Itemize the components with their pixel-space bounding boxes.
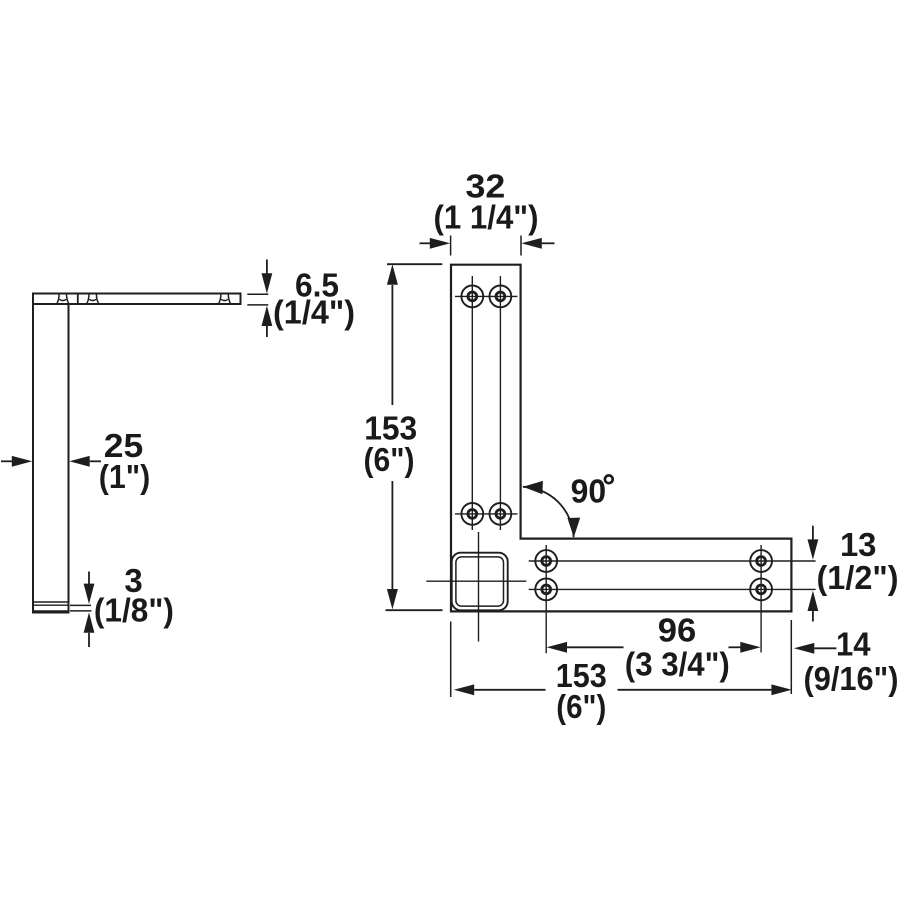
- square insert outer: [452, 553, 508, 611]
- dim 32 extension line right: [520, 236, 522, 256]
- dim 153 bottom extension line left: [450, 622, 452, 698]
- leg foot line A: [34, 601, 68, 603]
- svg-text:14: 14: [836, 626, 871, 663]
- hole arm left-bottom: [535, 579, 557, 601]
- arm hole column centerline left: [545, 545, 547, 653]
- svg-text:(1/4"): (1/4"): [273, 293, 355, 330]
- svg-text:(1 1/4"): (1 1/4"): [434, 199, 539, 236]
- svg-text:(1/2"): (1/2"): [817, 559, 899, 596]
- svg-text:13: 13: [840, 526, 877, 563]
- 90 arc arrowhead upper: [523, 481, 543, 494]
- leg foot thick glide: [32, 610, 70, 613]
- L-bracket outline: [451, 265, 791, 612]
- dim 25 right arrow: [69, 456, 89, 467]
- screw bump 3: [219, 294, 230, 303]
- screw bump 2: [87, 294, 98, 303]
- svg-text:(6"): (6"): [556, 688, 606, 725]
- svg-text:(9/16"): (9/16"): [804, 660, 899, 697]
- dim 32 left arrow: [420, 242, 431, 244]
- hole top-left: [461, 286, 483, 308]
- hole arm right-bottom: [750, 579, 772, 601]
- svg-text:(1"): (1"): [99, 458, 151, 495]
- svg-text:90: 90: [571, 472, 607, 509]
- dim 25 left arrow: [1, 460, 13, 462]
- lower vertical-arm holes row centerline: [455, 513, 518, 515]
- hole column centerline left (vertical arm): [471, 276, 473, 530]
- dim 3 extension line bottom: [70, 610, 92, 612]
- dim 3 extension line top: [70, 604, 91, 606]
- dim 153 left extension line top: [387, 263, 442, 265]
- dim 153 left line upper segment: [391, 285, 393, 405]
- dim 6.5 extension line bottom: [247, 304, 268, 306]
- svg-text:(6"): (6"): [364, 441, 415, 478]
- square insert vertical centerline: [478, 532, 480, 642]
- top holes row centerline: [455, 295, 518, 297]
- dim 6.5 extension line top: [247, 293, 268, 295]
- svg-text:96: 96: [658, 612, 697, 649]
- dim 3 down arrow: [88, 572, 90, 586]
- dim 13 up arrow: [808, 591, 819, 611]
- dim 32 extension line left: [450, 236, 452, 256]
- svg-text:(3 3/4"): (3 3/4"): [625, 646, 730, 683]
- 90 arc arrowhead lower: [567, 518, 580, 538]
- hole arm right-top: [750, 550, 772, 572]
- dim 32 right arrow: [521, 238, 541, 249]
- arm hole column centerline right: [760, 545, 762, 653]
- dim 13 down arrow: [812, 526, 814, 541]
- 90 degree arc: [523, 487, 574, 537]
- dim 153 left extension line bottom: [386, 609, 443, 611]
- dim 6.5 up arrow: [262, 306, 273, 326]
- flange seam line: [77, 295, 79, 304]
- hole mid-right: [490, 503, 512, 525]
- horizontal arm upper row centerline: [529, 560, 816, 562]
- dim 96 line right segment with arrow: [729, 646, 741, 648]
- leg foot line B: [34, 604, 68, 606]
- dim 153 bottom extension line right: [790, 620, 792, 694]
- svg-text:(1/8"): (1/8"): [94, 592, 174, 629]
- dim 96 line left segment with arrow: [547, 642, 567, 653]
- square insert inner: [456, 557, 504, 606]
- horizontal arm lower row centerline: [529, 588, 816, 590]
- hole arm left-top: [535, 550, 557, 572]
- square insert horizontal centerline: [426, 580, 526, 582]
- dim 153 left up arrow: [387, 264, 398, 284]
- dim 153 bottom right arrow: [618, 689, 772, 691]
- leg profile (side view): [33, 294, 69, 612]
- hole mid-left: [461, 503, 483, 525]
- top flange plate (side view): [33, 294, 241, 305]
- dim 14 arrow: [794, 643, 814, 654]
- screw bump 1: [57, 294, 68, 303]
- dim 153 bottom left arrow: [454, 684, 474, 695]
- hole column centerline right (vertical arm): [499, 276, 501, 530]
- hole top-right: [490, 286, 512, 308]
- dim 153 left down arrow: [387, 589, 398, 609]
- dim 153 left line lower segment: [391, 481, 393, 589]
- dim 3 up arrow: [84, 612, 95, 632]
- dim 6.5 down arrow: [266, 260, 268, 276]
